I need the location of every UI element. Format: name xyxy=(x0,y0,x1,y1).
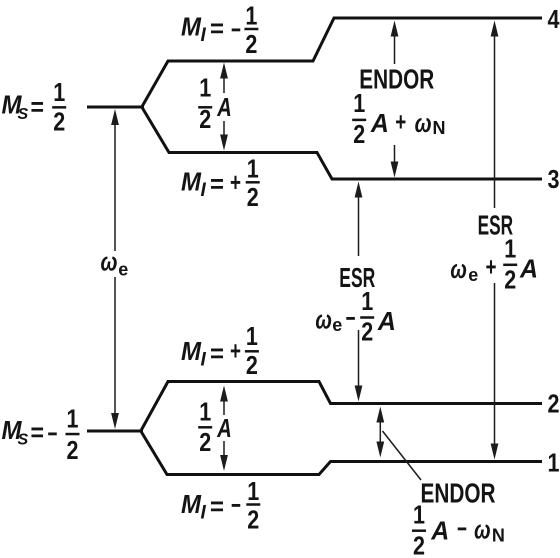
wire: Ms=-1/2 stub level xyxy=(87,430,143,433)
wire: pointer from ENDOR label to arrow xyxy=(383,431,422,480)
svg-text:2: 2 xyxy=(548,389,560,419)
svg-text:−: − xyxy=(231,14,241,44)
svg-text:1: 1 xyxy=(247,154,259,184)
svg-text:4: 4 xyxy=(548,4,560,34)
svg-text:1: 1 xyxy=(199,73,211,103)
svg-text:ω: ω xyxy=(315,305,332,335)
svg-text:M: M xyxy=(181,489,202,519)
svg-text:2: 2 xyxy=(199,104,211,134)
svg-text:A: A xyxy=(370,108,389,138)
label MI = +1/2 (top lower) xyxy=(181,154,260,213)
svg-text:=: = xyxy=(31,91,45,121)
svg-text:3: 3 xyxy=(548,164,560,194)
svg-text:ω: ω xyxy=(474,515,491,545)
svg-text:M: M xyxy=(181,336,202,366)
arrow ENDOR bottom (level 2 to level 1) xyxy=(376,407,384,458)
arrow ENDOR top (level 4 to level 3) xyxy=(391,21,399,178)
svg-text:e: e xyxy=(468,265,478,285)
svg-text:2: 2 xyxy=(413,531,425,558)
svg-text:I: I xyxy=(201,350,207,371)
label 1/2 A + omega_N (top ENDOR) xyxy=(352,88,445,149)
svg-text:1: 1 xyxy=(245,1,257,31)
svg-text:2: 2 xyxy=(246,350,258,380)
wire: upper hyperfine branch to level 2 xyxy=(141,382,543,432)
arrow ESR right (level 4 to level 1) xyxy=(491,21,499,460)
wire: upper hyperfine branch to level 4 xyxy=(142,18,543,108)
svg-text:ENDOR: ENDOR xyxy=(421,478,496,509)
svg-text:+: + xyxy=(230,336,241,366)
svg-text:−: − xyxy=(48,419,58,449)
svg-text:A: A xyxy=(216,92,231,122)
svg-text:1: 1 xyxy=(247,476,259,506)
svg-text:2: 2 xyxy=(67,435,79,465)
svg-text:=: = xyxy=(210,168,224,198)
svg-text:I: I xyxy=(201,180,207,201)
svg-text:=: = xyxy=(31,417,45,447)
svg-text:I: I xyxy=(201,25,207,46)
label Ms = +1/2 xyxy=(2,77,67,137)
svg-text:1: 1 xyxy=(353,88,365,118)
svg-text:1: 1 xyxy=(246,321,258,351)
svg-text:−: − xyxy=(457,514,467,544)
label MI = +1/2 (bottom upper) xyxy=(181,321,259,380)
svg-text:1: 1 xyxy=(67,404,79,434)
svg-text:ω: ω xyxy=(450,254,467,284)
svg-text:−: − xyxy=(231,490,241,520)
svg-text:+: + xyxy=(395,106,406,136)
svg-text:M: M xyxy=(181,167,202,197)
wire: lower hyperfine branch to level 3 xyxy=(142,107,543,180)
svg-text:ENDOR: ENDOR xyxy=(359,63,434,94)
svg-text:N: N xyxy=(492,526,505,546)
svg-text:S: S xyxy=(18,106,29,123)
label MI = -1/2 (bottom lower) xyxy=(181,476,260,535)
svg-text:+: + xyxy=(486,252,497,282)
arrow ESR left (level 3 to level 2) xyxy=(355,182,363,402)
svg-text:2: 2 xyxy=(361,317,373,347)
label omega_e (electron Zeeman arrow) xyxy=(101,247,129,280)
svg-text:1: 1 xyxy=(53,77,65,107)
label omega_e + 1/2 A (right ESR) xyxy=(450,234,538,295)
svg-text:=: = xyxy=(210,491,224,521)
svg-text:+: + xyxy=(230,167,241,197)
svg-text:S: S xyxy=(18,432,29,449)
svg-text:N: N xyxy=(433,118,446,138)
svg-text:A: A xyxy=(519,254,538,284)
svg-text:A: A xyxy=(216,413,231,443)
wire: Ms=+1/2 stub level xyxy=(87,106,144,109)
svg-text:ω: ω xyxy=(101,247,118,277)
svg-text:=: = xyxy=(210,338,224,368)
label Ms = -1/2 xyxy=(2,404,80,466)
svg-text:−: − xyxy=(346,303,356,333)
svg-text:1: 1 xyxy=(504,234,516,264)
label omega_e - 1/2 A (left ESR) xyxy=(315,286,396,347)
label 1/2 A - omega_N (bottom ENDOR) xyxy=(412,500,505,558)
svg-text:A: A xyxy=(430,516,449,546)
svg-text:2: 2 xyxy=(504,265,516,295)
svg-text:2: 2 xyxy=(245,29,257,59)
arrow 1/2 A bottom (double-headed) xyxy=(220,386,228,472)
svg-text:=: = xyxy=(210,13,224,43)
svg-text:A: A xyxy=(377,306,396,336)
svg-text:1: 1 xyxy=(361,286,373,316)
arrow 1/2 A top (double-headed) xyxy=(220,63,228,151)
svg-text:2: 2 xyxy=(247,182,259,212)
svg-text:e: e xyxy=(332,315,342,335)
svg-text:2: 2 xyxy=(53,107,65,137)
label 1/2 A (bottom hyperfine gap) xyxy=(198,397,232,458)
wire: lower hyperfine branch to level 1 xyxy=(141,431,543,475)
svg-text:ω: ω xyxy=(415,108,432,138)
svg-text:e: e xyxy=(118,260,128,280)
svg-text:2: 2 xyxy=(247,505,259,535)
svg-text:2: 2 xyxy=(199,427,211,457)
svg-text:1: 1 xyxy=(548,448,560,478)
svg-text:I: I xyxy=(201,503,207,524)
svg-text:M: M xyxy=(181,12,202,42)
label 1/2 A (top hyperfine gap) xyxy=(198,73,232,135)
svg-text:1: 1 xyxy=(413,500,425,530)
arrow omega_e (double-headed, between Ms stubs) xyxy=(111,109,119,429)
label MI = -1/2 (top upper) xyxy=(181,1,258,59)
svg-text:1: 1 xyxy=(199,397,211,427)
svg-text:2: 2 xyxy=(353,119,365,149)
